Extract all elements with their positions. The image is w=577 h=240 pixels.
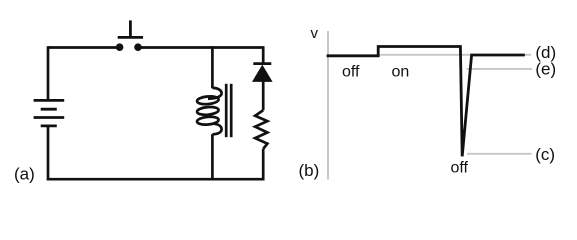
svg-text:off: off bbox=[342, 63, 360, 80]
svg-text:(b): (b) bbox=[299, 161, 320, 180]
svg-text:off: off bbox=[451, 160, 469, 177]
svg-text:v: v bbox=[311, 25, 319, 42]
svg-text:(a): (a) bbox=[14, 165, 35, 184]
svg-text:on: on bbox=[392, 63, 410, 80]
svg-text:(e): (e) bbox=[535, 60, 556, 79]
svg-text:(c): (c) bbox=[535, 145, 555, 164]
